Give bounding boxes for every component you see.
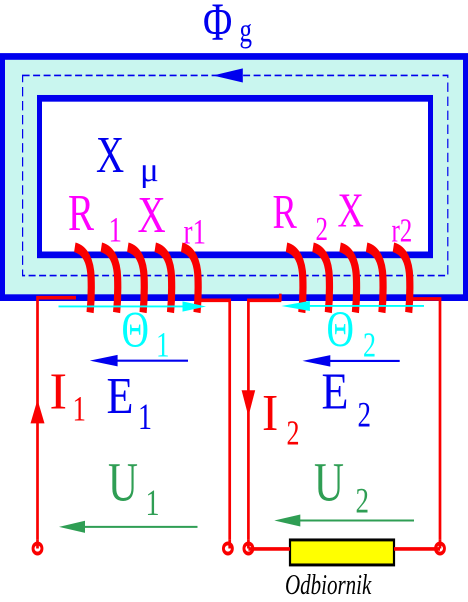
svg-text:1: 1	[109, 210, 122, 250]
svg-text:E: E	[322, 363, 349, 420]
svg-text:2: 2	[316, 212, 329, 248]
svg-text:2: 2	[356, 481, 369, 521]
svg-text:g: g	[240, 13, 253, 49]
svg-text:R: R	[68, 184, 94, 242]
svg-text:U: U	[108, 451, 138, 513]
svg-text:Odbiornik: Odbiornik	[285, 570, 372, 601]
svg-text:I: I	[50, 363, 68, 421]
svg-text:I: I	[262, 383, 278, 441]
svg-text:1: 1	[138, 397, 152, 438]
svg-text:μ: μ	[140, 152, 159, 189]
svg-text:2: 2	[363, 326, 376, 365]
svg-text:1: 1	[156, 325, 169, 365]
svg-text:1: 1	[146, 483, 160, 524]
svg-text:Φ: Φ	[203, 0, 232, 52]
svg-text:2: 2	[358, 395, 371, 435]
svg-text:Θ: Θ	[122, 301, 149, 358]
svg-text:X: X	[96, 125, 124, 183]
svg-text:X: X	[338, 184, 364, 237]
svg-text:U: U	[314, 451, 344, 513]
svg-text:R: R	[273, 186, 298, 239]
svg-text:2: 2	[287, 414, 300, 453]
svg-text:E: E	[107, 368, 134, 425]
svg-text:X: X	[138, 185, 166, 243]
svg-text:Θ: Θ	[327, 301, 354, 358]
svg-text:1: 1	[73, 389, 86, 429]
